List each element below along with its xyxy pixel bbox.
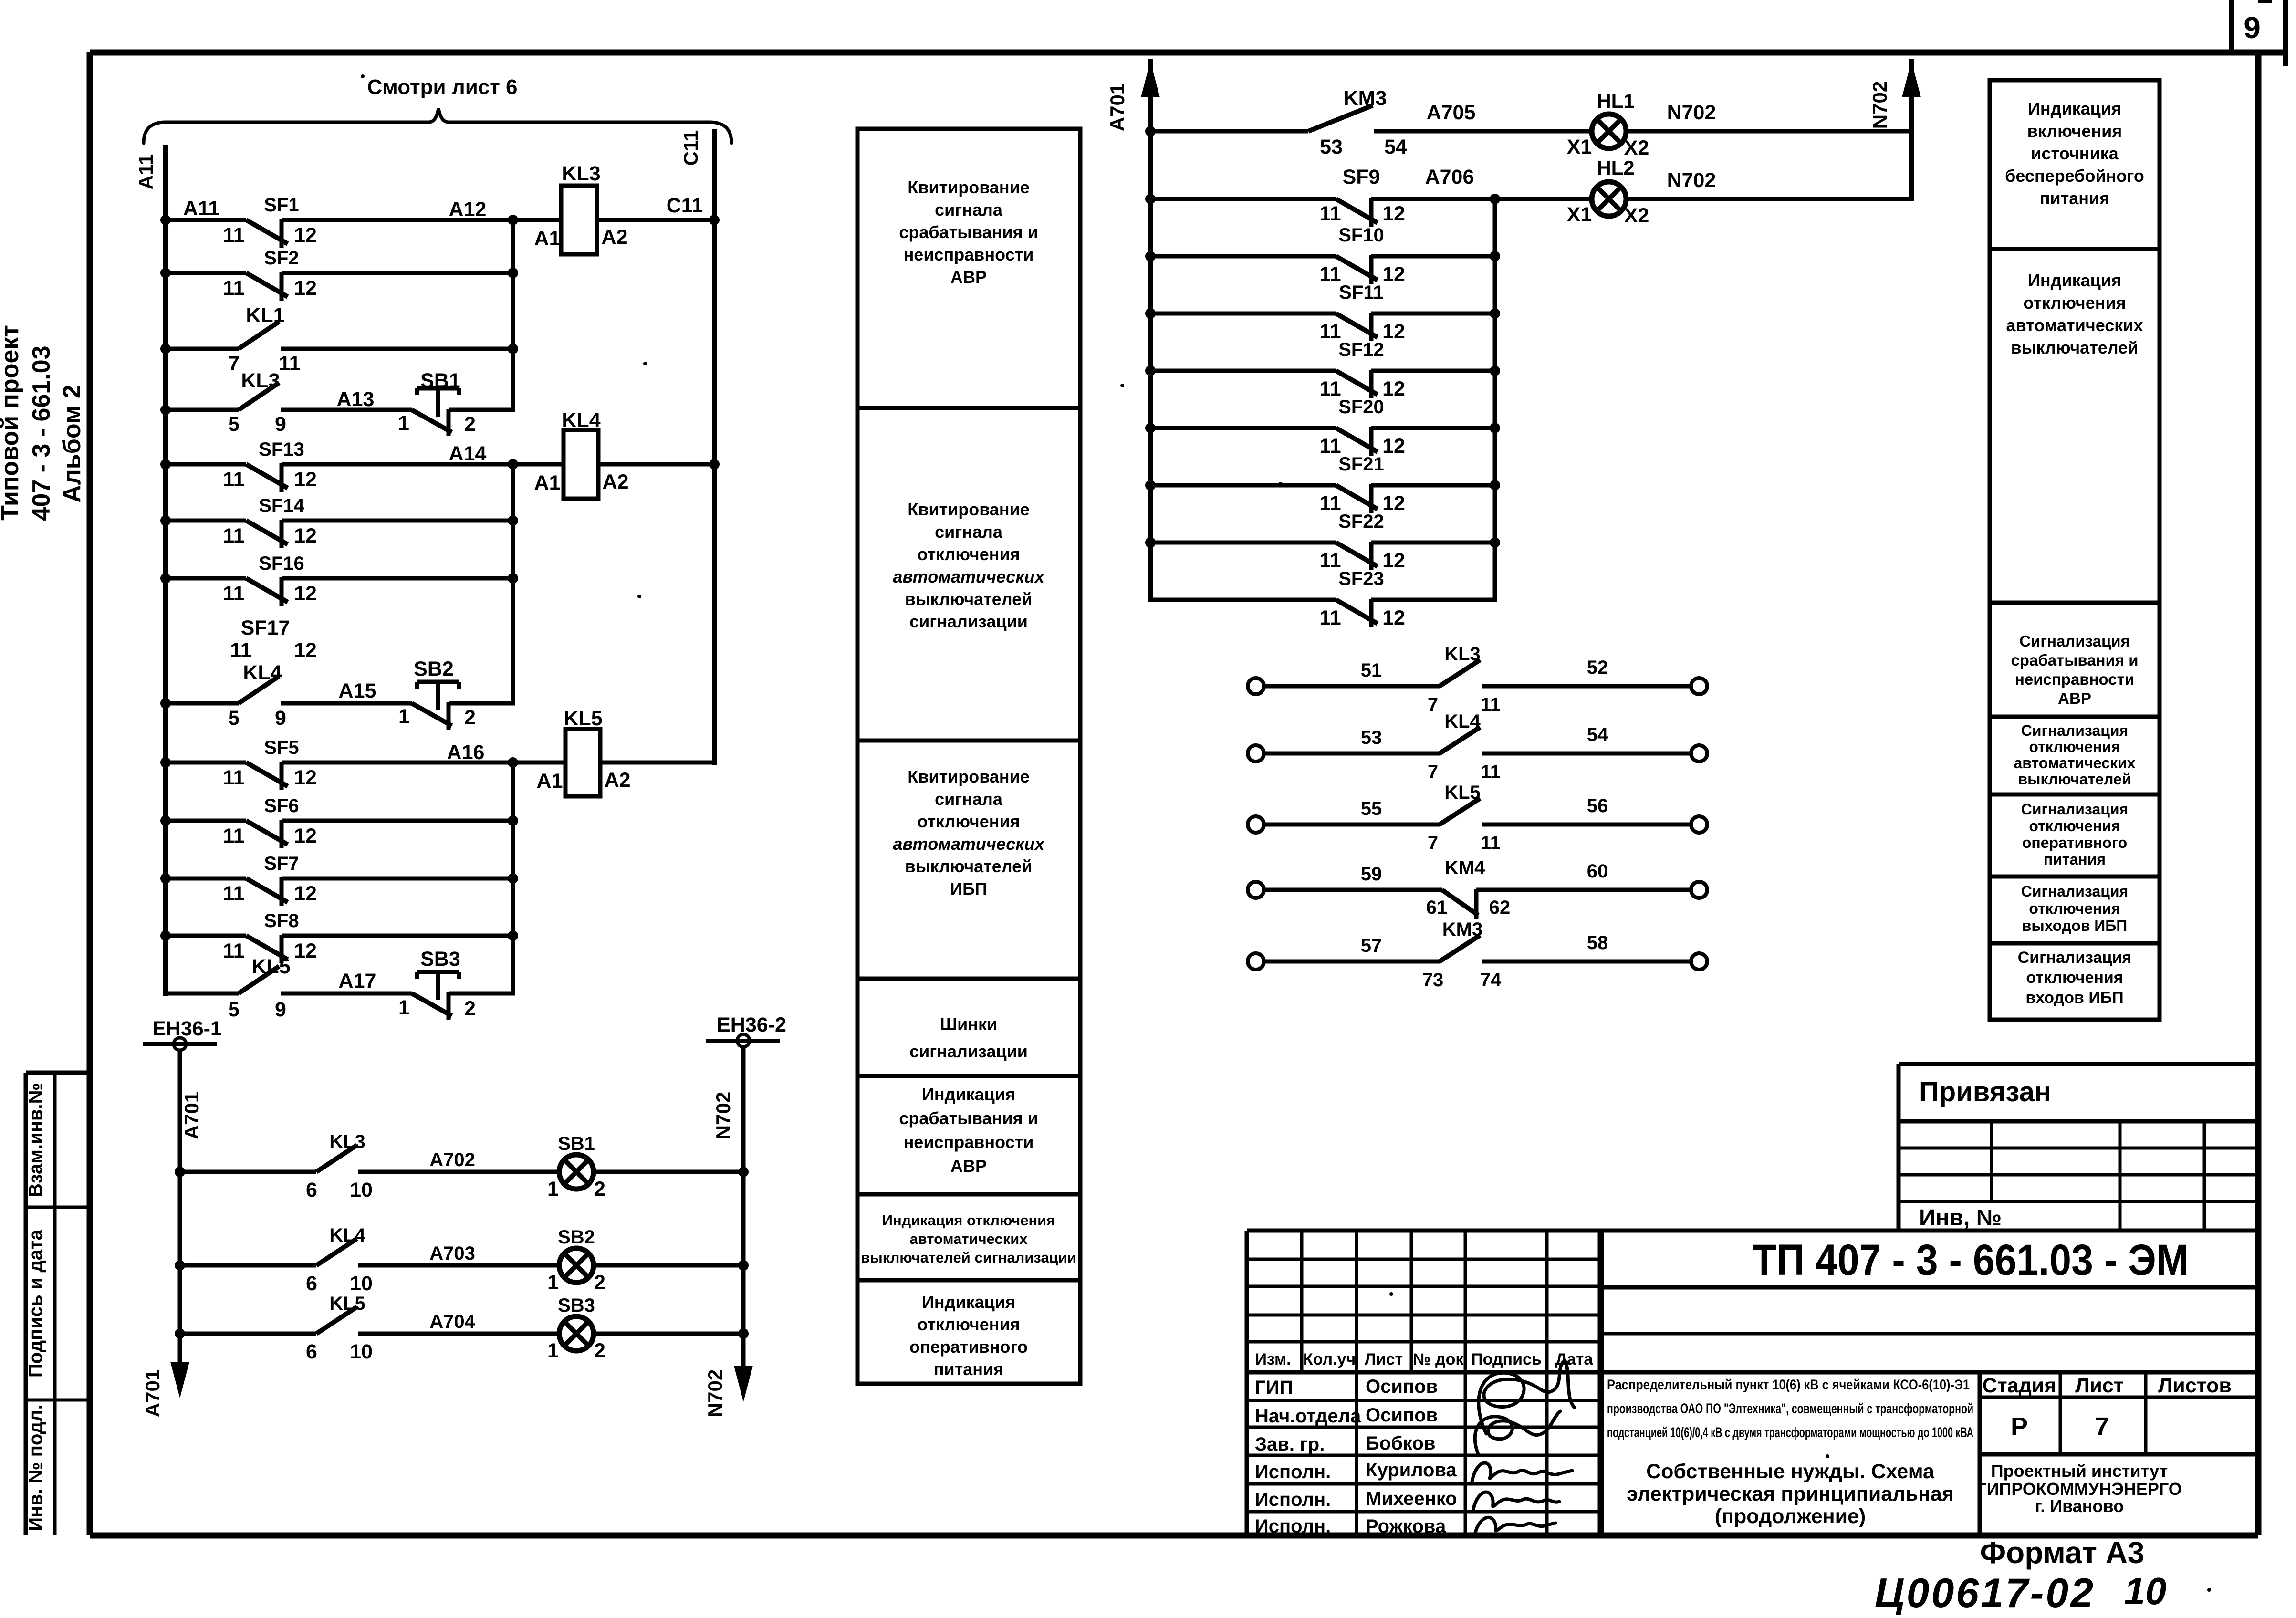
svg-text:A701: A701 xyxy=(180,1092,203,1139)
svg-text:Типовой проект: Типовой проект xyxy=(0,325,24,521)
svg-text:Индикация: Индикация xyxy=(922,1292,1015,1312)
svg-text:11: 11 xyxy=(1319,549,1341,572)
svg-text:2: 2 xyxy=(464,706,476,729)
svg-text:KL5: KL5 xyxy=(564,707,602,730)
svg-text:A2: A2 xyxy=(605,769,631,792)
svg-text:отключения: отключения xyxy=(917,812,1020,831)
svg-text:включения: включения xyxy=(2027,121,2122,141)
svg-text:отключения: отключения xyxy=(917,1315,1020,1334)
svg-text:SF5: SF5 xyxy=(264,737,299,758)
svg-text:9: 9 xyxy=(275,998,286,1021)
svg-text:KL5: KL5 xyxy=(251,955,290,978)
svg-text:KL3: KL3 xyxy=(562,162,600,185)
svg-text:срабатывания и: срабатывания и xyxy=(2011,651,2138,669)
svg-text:HL1: HL1 xyxy=(1597,90,1634,112)
svg-text:SF21: SF21 xyxy=(1338,454,1384,475)
svg-text:Квитирование: Квитирование xyxy=(908,177,1030,197)
svg-text:A16: A16 xyxy=(447,741,485,764)
svg-text:N702: N702 xyxy=(1667,169,1716,192)
svg-text:A12: A12 xyxy=(449,198,487,221)
svg-text:неисправности: неисправности xyxy=(2015,670,2134,688)
svg-text:Подпись: Подпись xyxy=(1471,1350,1542,1368)
svg-text:Индикация отключения: Индикация отключения xyxy=(882,1212,1055,1229)
svg-text:12: 12 xyxy=(1382,320,1405,343)
svg-text:C11: C11 xyxy=(667,194,703,217)
svg-text:Инв, №: Инв, № xyxy=(1919,1205,2002,1231)
svg-text:X1: X1 xyxy=(1567,203,1592,226)
svg-text:12: 12 xyxy=(1382,263,1405,286)
svg-text:сигнала: сигнала xyxy=(935,522,1003,542)
svg-text:54: 54 xyxy=(1587,724,1608,745)
svg-text:X2: X2 xyxy=(1624,136,1649,159)
svg-text:1: 1 xyxy=(398,412,409,435)
svg-text:Исполн.: Исполн. xyxy=(1255,1489,1331,1510)
svg-text:источника: источника xyxy=(2031,144,2119,163)
svg-text:SF6: SF6 xyxy=(264,795,299,816)
svg-text:7: 7 xyxy=(228,352,240,375)
svg-text:SB3: SB3 xyxy=(420,948,460,971)
svg-text:Михеенко: Михеенко xyxy=(1366,1488,1457,1509)
svg-text:Индикация: Индикация xyxy=(922,1085,1015,1104)
svg-text:SB2: SB2 xyxy=(558,1227,595,1248)
svg-text:сигнализации: сигнализации xyxy=(909,1042,1028,1061)
svg-text:выходов ИБП: выходов ИБП xyxy=(2022,917,2128,934)
svg-text:выключателей: выключателей xyxy=(905,856,1033,876)
svg-text:A703: A703 xyxy=(429,1243,475,1264)
svg-text:2: 2 xyxy=(594,1178,605,1200)
svg-text:58: 58 xyxy=(1587,932,1608,953)
svg-text:KL3: KL3 xyxy=(1444,644,1481,665)
svg-text:отключения: отключения xyxy=(2026,969,2123,987)
svg-text:отключения: отключения xyxy=(2029,817,2120,835)
svg-text:Рожкова: Рожкова xyxy=(1366,1516,1446,1537)
svg-text:11: 11 xyxy=(1481,762,1501,783)
svg-text:Смотри лист 6: Смотри лист 6 xyxy=(367,75,518,99)
svg-text:11: 11 xyxy=(223,277,244,300)
svg-text:Осипов: Осипов xyxy=(1366,1405,1438,1426)
svg-text:55: 55 xyxy=(1361,798,1382,819)
svg-text:Исполн.: Исполн. xyxy=(1255,1516,1331,1537)
svg-text:оперативного: оперативного xyxy=(2022,834,2127,851)
svg-text:ТП 407 - 3 - 661.03 - ЭМ: ТП 407 - 3 - 661.03 - ЭМ xyxy=(1753,1236,2189,1284)
svg-text:KL3: KL3 xyxy=(241,369,280,392)
svg-text:АВР: АВР xyxy=(950,267,987,287)
svg-text:N702: N702 xyxy=(704,1369,726,1417)
svg-text:Взам.инв.№: Взам.инв.№ xyxy=(25,1083,46,1197)
svg-text:Подпись и дата: Подпись и дата xyxy=(25,1229,46,1378)
svg-text:срабатывания и: срабатывания и xyxy=(899,1108,1038,1128)
svg-text:9: 9 xyxy=(2244,10,2261,45)
svg-text:N702: N702 xyxy=(1667,101,1716,124)
svg-text:EH36-1: EH36-1 xyxy=(152,1017,222,1040)
svg-text:Курилова: Курилова xyxy=(1366,1460,1457,1481)
svg-text:A2: A2 xyxy=(602,226,628,249)
svg-text:6: 6 xyxy=(306,1340,317,1363)
svg-text:11: 11 xyxy=(223,939,244,962)
svg-text:Стадия: Стадия xyxy=(1983,1374,2056,1397)
svg-text:SB1: SB1 xyxy=(558,1133,595,1154)
svg-text:питания: питания xyxy=(2044,851,2106,868)
svg-text:2: 2 xyxy=(464,997,476,1020)
svg-text:SF2: SF2 xyxy=(264,248,299,269)
svg-text:12: 12 xyxy=(294,468,317,491)
svg-text:A2: A2 xyxy=(603,470,629,493)
svg-text:11: 11 xyxy=(223,224,244,247)
svg-text:Шинки: Шинки xyxy=(940,1014,997,1034)
svg-text:Р: Р xyxy=(2011,1412,2028,1441)
svg-text:автоматических: автоматических xyxy=(893,834,1045,854)
svg-text:53: 53 xyxy=(1320,136,1343,158)
svg-text:автоматических: автоматических xyxy=(2006,315,2143,335)
svg-text:11: 11 xyxy=(223,582,244,605)
svg-text:KL5: KL5 xyxy=(1444,782,1481,803)
svg-text:неисправности: неисправности xyxy=(904,1132,1034,1152)
svg-text:7: 7 xyxy=(1428,762,1438,783)
svg-text:электрическая принципиальная: электрическая принципиальная xyxy=(1627,1482,1954,1505)
svg-text:12: 12 xyxy=(294,524,317,547)
svg-text:61: 61 xyxy=(1426,897,1448,918)
svg-text:10: 10 xyxy=(350,1179,373,1201)
svg-text:выключателей: выключателей xyxy=(2011,338,2139,357)
svg-text:A705: A705 xyxy=(1427,101,1476,124)
svg-text:A1: A1 xyxy=(534,227,561,250)
svg-text:10: 10 xyxy=(2124,1570,2167,1612)
svg-text:12: 12 xyxy=(1382,202,1405,225)
svg-text:Сигнализация: Сигнализация xyxy=(2021,801,2129,818)
svg-text:KM3: KM3 xyxy=(1344,87,1387,110)
svg-text:11: 11 xyxy=(1319,202,1341,225)
svg-text:выключателей сигнализации: выключателей сигнализации xyxy=(861,1249,1076,1266)
svg-text:A702: A702 xyxy=(429,1149,475,1170)
svg-text:Лист: Лист xyxy=(1365,1350,1403,1368)
svg-text:Кол.уч: Кол.уч xyxy=(1303,1350,1356,1368)
svg-text:KL4: KL4 xyxy=(243,661,282,684)
svg-text:Лист: Лист xyxy=(2075,1374,2124,1397)
svg-text:EH36-2: EH36-2 xyxy=(717,1013,786,1036)
svg-text:ГИПРОКОММУНЭНЕРГО: ГИПРОКОММУНЭНЕРГО xyxy=(1977,1479,2182,1499)
svg-text:11: 11 xyxy=(1481,833,1501,854)
svg-text:SF17: SF17 xyxy=(241,616,290,639)
svg-text:56: 56 xyxy=(1587,795,1608,816)
svg-text:C11: C11 xyxy=(679,130,702,166)
svg-text:SF1: SF1 xyxy=(264,195,299,216)
svg-text:KM3: KM3 xyxy=(1442,919,1482,940)
svg-text:11: 11 xyxy=(223,882,244,905)
svg-text:11: 11 xyxy=(223,766,244,789)
svg-text:A701: A701 xyxy=(1106,84,1128,131)
svg-text:SF14: SF14 xyxy=(259,495,304,516)
svg-text:KM4: KM4 xyxy=(1445,857,1485,878)
svg-text:Индикация: Индикация xyxy=(2028,271,2121,290)
svg-text:A15: A15 xyxy=(339,679,376,702)
svg-text:51: 51 xyxy=(1361,660,1382,681)
svg-text:SF20: SF20 xyxy=(1338,397,1384,418)
svg-text:62: 62 xyxy=(1489,897,1511,918)
svg-text:11: 11 xyxy=(1319,435,1341,458)
svg-text:выключателей: выключателей xyxy=(905,589,1033,609)
svg-text:Сигнализация: Сигнализация xyxy=(2021,883,2129,900)
svg-text:11: 11 xyxy=(1319,320,1341,343)
svg-text:АВР: АВР xyxy=(2058,689,2091,707)
svg-text:питания: питания xyxy=(2040,188,2109,208)
svg-text:11: 11 xyxy=(230,639,251,662)
svg-text:N702: N702 xyxy=(712,1092,734,1139)
svg-text:сигнализации: сигнализации xyxy=(909,612,1028,631)
svg-text:SF9: SF9 xyxy=(1343,166,1380,188)
svg-text:Осипов: Осипов xyxy=(1366,1376,1438,1397)
svg-text:SF22: SF22 xyxy=(1338,511,1384,532)
svg-text:A17: A17 xyxy=(339,970,376,992)
svg-text:неисправности: неисправности xyxy=(904,245,1034,264)
svg-text:Формат А3: Формат А3 xyxy=(1980,1535,2145,1570)
svg-text:1: 1 xyxy=(398,705,410,728)
svg-text:АВР: АВР xyxy=(950,1156,987,1176)
svg-text:12: 12 xyxy=(1382,377,1405,400)
svg-text:выключателей: выключателей xyxy=(2018,771,2131,788)
svg-text:A704: A704 xyxy=(429,1311,475,1332)
svg-text:73: 73 xyxy=(1422,970,1444,991)
svg-text:оперативного: оперативного xyxy=(909,1337,1028,1357)
svg-text:12: 12 xyxy=(1382,435,1405,458)
svg-text:9: 9 xyxy=(275,707,286,730)
svg-text:срабатывания и: срабатывания и xyxy=(899,222,1038,242)
svg-text:12: 12 xyxy=(294,639,317,662)
svg-text:53: 53 xyxy=(1361,727,1382,748)
svg-text:SF13: SF13 xyxy=(259,439,304,460)
svg-text:(продолжение): (продолжение) xyxy=(1715,1505,1866,1528)
svg-text:Нач.отдела: Нач.отдела xyxy=(1255,1406,1361,1427)
svg-text:12: 12 xyxy=(1382,549,1405,572)
svg-text:входов ИБП: входов ИБП xyxy=(2025,989,2123,1007)
svg-text:SF10: SF10 xyxy=(1338,225,1384,246)
svg-text:отключения: отключения xyxy=(2029,900,2120,917)
svg-text:A701: A701 xyxy=(141,1369,164,1417)
svg-text:2: 2 xyxy=(594,1271,605,1294)
svg-text:12: 12 xyxy=(294,766,317,789)
svg-text:A11: A11 xyxy=(183,197,220,220)
svg-text:2: 2 xyxy=(464,413,476,436)
svg-text:Сигнализация: Сигнализация xyxy=(2018,949,2132,967)
svg-text:7: 7 xyxy=(1428,833,1438,854)
svg-text:№ док: № док xyxy=(1413,1350,1464,1368)
svg-text:Собственные нужды. Схема: Собственные нужды. Схема xyxy=(1646,1460,1935,1483)
svg-text:74: 74 xyxy=(1480,970,1502,991)
svg-text:Бобков: Бобков xyxy=(1366,1433,1435,1454)
svg-text:57: 57 xyxy=(1361,935,1382,956)
svg-text:Инв. № подл.: Инв. № подл. xyxy=(25,1404,46,1531)
svg-text:5: 5 xyxy=(228,413,240,436)
svg-text:11: 11 xyxy=(1481,694,1501,715)
svg-text:6: 6 xyxy=(306,1179,317,1201)
svg-text:11: 11 xyxy=(223,468,244,491)
svg-text:7: 7 xyxy=(1428,694,1438,715)
svg-text:автоматических: автоматических xyxy=(893,567,1045,586)
svg-text:Сигнализация: Сигнализация xyxy=(2021,722,2129,739)
svg-text:1: 1 xyxy=(547,1339,559,1362)
svg-text:A13: A13 xyxy=(337,388,375,411)
svg-text:Ц00617-02: Ц00617-02 xyxy=(1875,1570,2095,1616)
svg-text:питания: питания xyxy=(934,1359,1003,1379)
svg-text:N702: N702 xyxy=(1868,81,1891,129)
svg-text:отключения: отключения xyxy=(917,544,1020,564)
svg-text:A706: A706 xyxy=(1425,166,1474,188)
svg-text:г. Иваново: г. Иваново xyxy=(2035,1496,2124,1516)
svg-text:SF11: SF11 xyxy=(1339,282,1383,303)
svg-text:X2: X2 xyxy=(1624,204,1649,227)
svg-text:автоматических: автоматических xyxy=(909,1231,1028,1247)
svg-text:1: 1 xyxy=(398,996,410,1019)
svg-text:автоматических: автоматических xyxy=(2014,754,2135,772)
svg-text:Изм.: Изм. xyxy=(1255,1350,1291,1368)
svg-text:SB3: SB3 xyxy=(558,1295,595,1316)
svg-text:Сигнализация: Сигнализация xyxy=(2019,632,2130,650)
svg-text:12: 12 xyxy=(294,825,317,847)
svg-text:11: 11 xyxy=(1319,606,1341,629)
svg-text:12: 12 xyxy=(294,224,317,247)
svg-text:SB2: SB2 xyxy=(414,658,454,680)
svg-text:A14: A14 xyxy=(449,442,487,465)
svg-text:A1: A1 xyxy=(534,471,561,494)
svg-text:SF7: SF7 xyxy=(264,853,299,874)
svg-text:10: 10 xyxy=(350,1340,373,1363)
svg-text:407 - 3 - 661.03: 407 - 3 - 661.03 xyxy=(28,345,55,521)
svg-text:11: 11 xyxy=(223,825,244,847)
svg-text:12: 12 xyxy=(294,882,317,905)
svg-text:Исполн.: Исполн. xyxy=(1255,1461,1331,1482)
svg-text:Привязан: Привязан xyxy=(1919,1076,2051,1107)
svg-text:HL2: HL2 xyxy=(1597,157,1634,179)
svg-text:11: 11 xyxy=(223,524,244,547)
svg-text:A1: A1 xyxy=(537,770,563,793)
svg-text:A11: A11 xyxy=(135,154,157,190)
svg-text:ИБП: ИБП xyxy=(950,879,987,898)
svg-text:2: 2 xyxy=(594,1339,605,1362)
svg-text:подстанцией 10(6)/0,4 кВ с дву: подстанцией 10(6)/0,4 кВ с двумя трансфо… xyxy=(1607,1425,1973,1441)
svg-text:производства ОАО ПО "Элтехника: производства ОАО ПО "Элтехника", совмеще… xyxy=(1607,1401,1973,1417)
svg-text:Квитирование: Квитирование xyxy=(908,767,1030,786)
svg-text:5: 5 xyxy=(228,707,240,730)
svg-text:отключения: отключения xyxy=(2029,738,2120,755)
svg-text:SF23: SF23 xyxy=(1338,568,1384,589)
svg-text:ГИП: ГИП xyxy=(1255,1377,1293,1398)
svg-text:11: 11 xyxy=(1319,492,1341,515)
svg-text:10: 10 xyxy=(350,1272,373,1295)
svg-text:бесперебойного: бесперебойного xyxy=(2005,166,2144,186)
svg-text:60: 60 xyxy=(1587,861,1608,882)
svg-text:сигнала: сигнала xyxy=(935,200,1003,219)
svg-text:12: 12 xyxy=(294,582,317,605)
svg-text:Индикация: Индикация xyxy=(2028,99,2121,118)
svg-text:1: 1 xyxy=(547,1178,559,1200)
svg-text:SB1: SB1 xyxy=(420,369,460,392)
svg-text:KL5: KL5 xyxy=(329,1293,365,1314)
svg-text:11: 11 xyxy=(1319,263,1341,286)
svg-text:X1: X1 xyxy=(1567,136,1592,158)
svg-text:Листов: Листов xyxy=(2158,1374,2232,1397)
svg-text:Альбом 2: Альбом 2 xyxy=(58,385,86,503)
svg-text:54: 54 xyxy=(1384,136,1407,158)
svg-text:12: 12 xyxy=(1382,606,1405,629)
svg-text:Зав. гр.: Зав. гр. xyxy=(1255,1434,1325,1455)
svg-text:SF8: SF8 xyxy=(264,910,299,931)
svg-text:SF16: SF16 xyxy=(259,553,304,574)
svg-text:Распределительный пункт 10(6): Распределительный пункт 10(6) кВ с ячейк… xyxy=(1607,1377,1970,1393)
svg-text:сигнала: сигнала xyxy=(935,789,1003,809)
svg-text:KL3: KL3 xyxy=(329,1131,365,1152)
svg-text:KL4: KL4 xyxy=(562,409,600,432)
svg-text:KL4: KL4 xyxy=(329,1225,365,1246)
svg-text:11: 11 xyxy=(279,352,300,375)
svg-text:12: 12 xyxy=(294,939,317,962)
svg-text:Проектный институт: Проектный институт xyxy=(1991,1461,2168,1481)
svg-text:отключения: отключения xyxy=(2023,293,2126,313)
svg-text:KL1: KL1 xyxy=(246,304,284,327)
svg-text:SF12: SF12 xyxy=(1338,339,1384,360)
svg-text:12: 12 xyxy=(294,277,317,300)
svg-text:59: 59 xyxy=(1361,864,1382,885)
svg-text:6: 6 xyxy=(306,1272,317,1295)
svg-text:9: 9 xyxy=(275,413,286,436)
svg-text:52: 52 xyxy=(1587,657,1608,678)
svg-text:Квитирование: Квитирование xyxy=(908,500,1030,519)
svg-text:1: 1 xyxy=(547,1271,559,1294)
svg-text:11: 11 xyxy=(1319,377,1341,400)
svg-text:KL4: KL4 xyxy=(1444,711,1481,732)
svg-text:5: 5 xyxy=(228,998,240,1021)
svg-text:12: 12 xyxy=(1382,492,1405,515)
svg-text:7: 7 xyxy=(2095,1412,2109,1441)
